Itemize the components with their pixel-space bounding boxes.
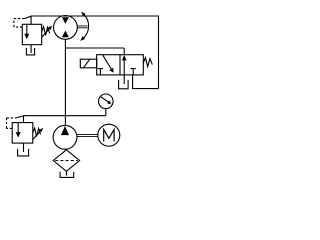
hydraulic motor M1 rotation arc xyxy=(80,12,88,41)
directional valve V1 right up arrow xyxy=(122,55,127,75)
filter F1 tank port xyxy=(65,171,67,175)
relief valve RV1 tank xyxy=(26,48,34,55)
electric motor M circle xyxy=(98,124,120,146)
directional valve V1 spring xyxy=(143,58,152,67)
pressure gauge PG1 xyxy=(99,94,114,109)
pump P1 triangle xyxy=(61,126,69,135)
filter F1 element dashed xyxy=(55,160,77,162)
relief valve RV1 pilot dashed line xyxy=(14,19,25,28)
relief valve RV1 tank port xyxy=(30,45,32,53)
relief valve RV1 spring xyxy=(42,27,50,35)
directional valve V1 right blocked port T xyxy=(131,69,136,75)
relief valve RV2 spring xyxy=(33,128,41,136)
hydraulic motor M1 circle xyxy=(54,16,78,40)
directional valve V1 left blocked port T xyxy=(98,69,103,75)
wire gauge riser xyxy=(105,109,107,116)
hydraulic motor M1 shaft xyxy=(77,26,87,28)
relief valve RV2 pilot diagonal xyxy=(16,116,24,118)
relief valve RV2 adjust arrow xyxy=(32,128,43,140)
wire main line motor to pump xyxy=(64,39,66,126)
directional valve V1 divider xyxy=(119,55,121,75)
pump shaft xyxy=(77,134,98,136)
wire valve P riser xyxy=(132,75,134,89)
electric motor M letter xyxy=(104,130,114,142)
relief valve RV1 flow arrow xyxy=(24,24,29,39)
relief valve RV1 body xyxy=(22,24,41,44)
relief valve RV2 tank port xyxy=(23,143,25,152)
pump P1 circle xyxy=(53,125,77,149)
wire pump to filter xyxy=(64,149,66,150)
relief valve RV1 adjust arrow xyxy=(41,26,52,38)
relief valve RV2 flow arrow xyxy=(16,123,21,138)
wire top pressure rail xyxy=(31,15,158,17)
wire bottom connector xyxy=(133,88,159,90)
relief valve RV1 pilot diagonal xyxy=(25,16,32,18)
directional valve V1 tank port xyxy=(123,75,125,84)
solenoid actuator xyxy=(80,59,96,68)
relief valve RV1 riser xyxy=(30,16,32,25)
wire low pressure horizontal xyxy=(24,115,106,117)
wire right vertical rail xyxy=(158,16,160,89)
relief valve RV2 body xyxy=(12,123,33,144)
directional valve V1 body xyxy=(97,55,144,75)
filter F1 diamond xyxy=(53,150,79,172)
directional valve V1 tank xyxy=(119,80,129,89)
relief valve RV2 riser xyxy=(23,116,25,123)
directional valve V1 left diagonal arrow xyxy=(103,55,114,73)
relief valve RV2 pilot dashed line xyxy=(7,118,16,128)
hydraulic motor M1 triangles xyxy=(62,17,69,37)
relief valve RV2 tank xyxy=(18,149,29,156)
filter F1 tank xyxy=(60,172,74,178)
wire branch to valve xyxy=(65,48,124,55)
